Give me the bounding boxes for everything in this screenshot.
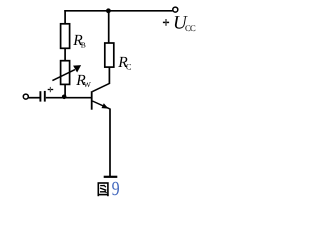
svg-text:B: B [81,40,86,49]
transistor Q1 collector lead [92,83,109,91]
svg-text:9: 9 [112,178,120,200]
wire left vertical from rail to RB [64,10,66,24]
wire RW to base node [64,84,66,97]
wire top rail [64,10,172,12]
terminal input [23,94,28,99]
wire collector to RC [108,67,110,84]
svg-text:W: W [84,80,92,89]
resistor RC [105,43,114,67]
wire RC to top junction [108,11,110,43]
resistor RB [61,24,70,49]
resistor RW (adjustable) [61,61,70,85]
wire input to capacitor [29,97,40,99]
label + polarity of Ucc [163,19,169,26]
caption glyph 图 [98,183,108,196]
capacitor C1 [40,91,44,102]
wire capacitor to base node [46,97,65,99]
node junction top (rail to Rc) [106,8,111,13]
wire RB to RW [64,48,66,61]
transistor Q1 emitter lead with arrow [92,101,109,109]
label RW [75,72,91,89]
label + polarity of C1 [48,87,54,92]
terminal +Ucc [173,7,178,12]
svg-text:C: C [126,63,132,72]
svg-text:CC: CC [185,23,196,33]
transistor Q1 base bar [91,91,93,110]
arrow RW wiper [52,65,81,81]
ground bar [104,176,118,178]
label Ucc [173,13,196,34]
label RB [72,32,86,49]
node base junction [62,95,67,100]
label RC [117,54,132,72]
wire base node to transistor base [65,97,91,99]
caption number 9 [112,178,120,200]
wire emitter down [109,108,111,176]
